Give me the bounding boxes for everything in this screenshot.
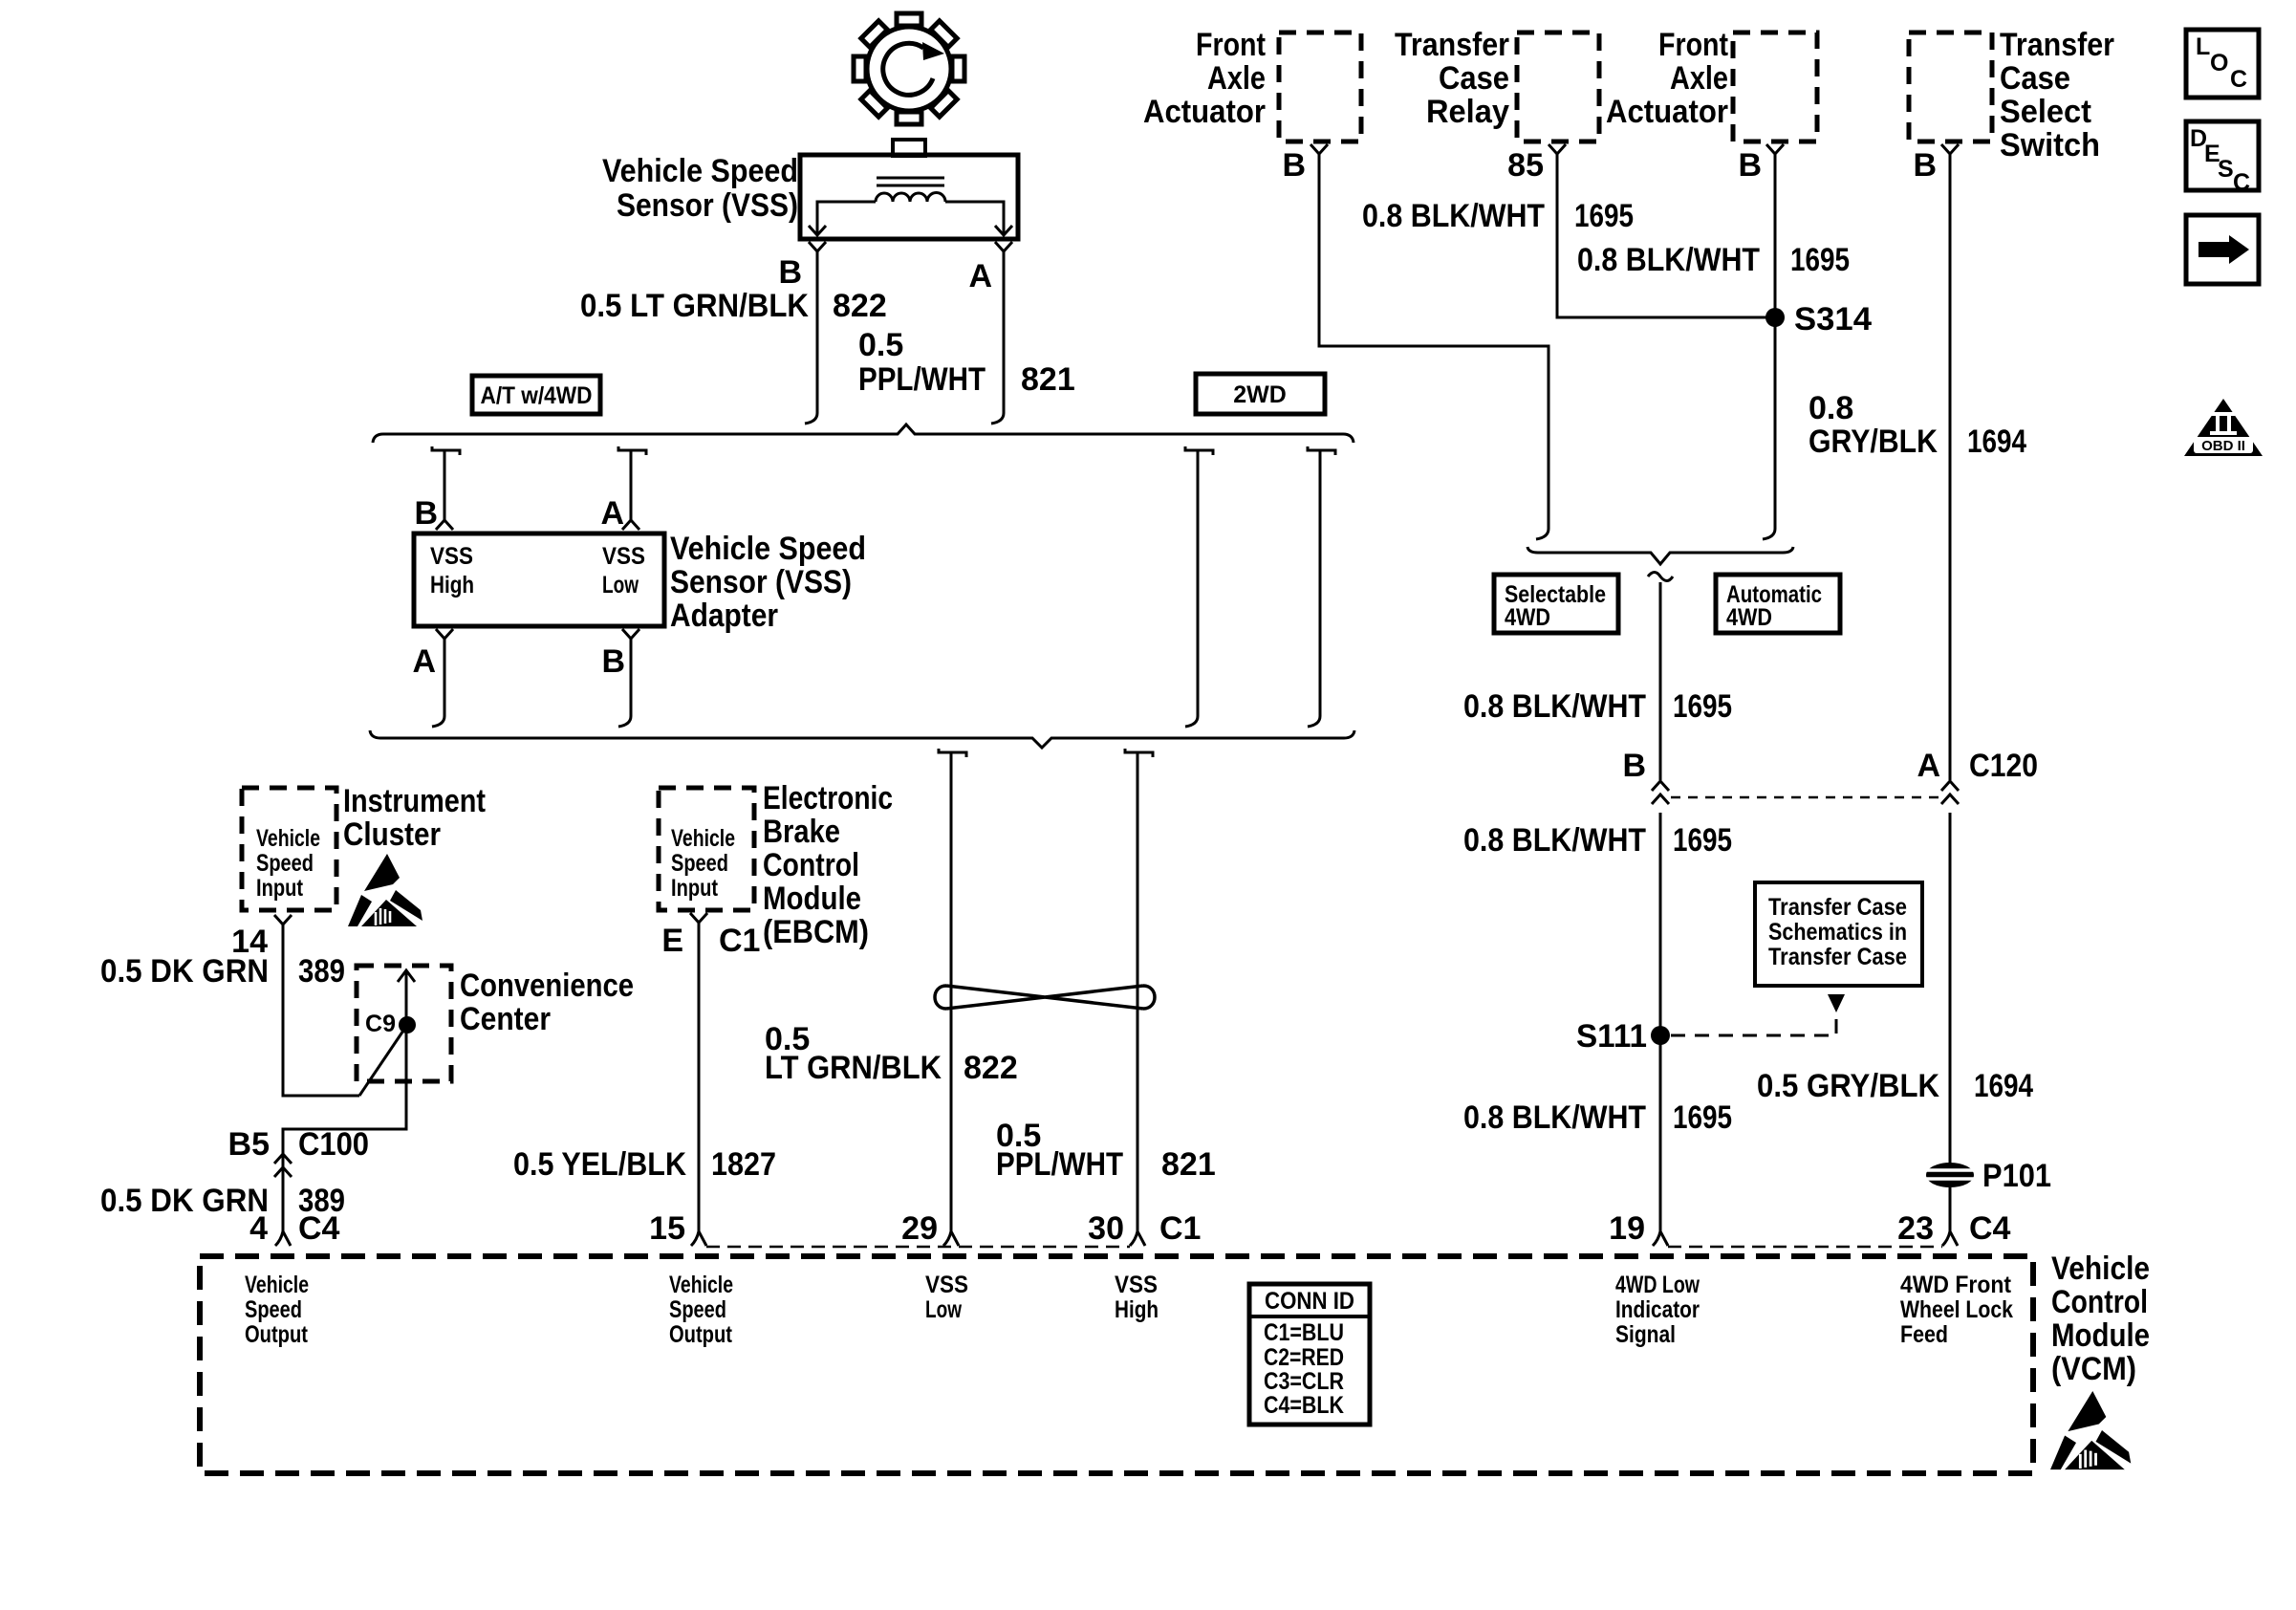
arrowhead down left: [809, 226, 826, 235]
ESD symbol VCM: [2050, 1391, 2131, 1469]
svg-text:C9: C9: [365, 1011, 396, 1037]
pin B connector box1: [1310, 144, 1328, 168]
wire from C120 A down to P101: [1949, 813, 1952, 1164]
svg-text:4: 4: [249, 1210, 268, 1247]
svg-text:Vehicle: Vehicle: [671, 825, 735, 852]
svg-text:Schematics in: Schematics in: [1768, 919, 1907, 946]
svg-text:B: B: [1738, 147, 1762, 184]
svg-text:0.5 YEL/BLK: 0.5 YEL/BLK: [513, 1146, 686, 1183]
svg-text:CONN ID: CONN ID: [1265, 1288, 1354, 1315]
S111 dashed link: [1671, 1015, 1836, 1035]
svg-text:0.8 BLK/WHT: 0.8 BLK/WHT: [1577, 242, 1760, 278]
svg-text:B: B: [1622, 748, 1646, 784]
svg-text:Vehicle: Vehicle: [245, 1272, 309, 1298]
svg-text:Relay: Relay: [1426, 94, 1509, 130]
svg-text:0.8 BLK/WHT: 0.8 BLK/WHT: [1463, 688, 1646, 725]
VSS connector stem: [893, 140, 925, 156]
VSS coil winding: [876, 193, 945, 202]
svg-text:Case: Case: [2000, 60, 2070, 97]
transfer case select switch box: [1909, 33, 1992, 141]
wire 1827 from EBCM to VCM: [691, 933, 706, 1246]
LOC icon box: [2186, 30, 2259, 98]
svg-text:(EBCM): (EBCM): [763, 914, 869, 950]
svg-text:19: 19: [1609, 1210, 1645, 1247]
grommet P101: [1925, 1163, 1975, 1187]
front axle actuator box 1: [1279, 33, 1361, 141]
svg-text:C: C: [2230, 66, 2247, 93]
svg-text:0.5 DK GRN: 0.5 DK GRN: [100, 953, 269, 990]
svg-text:15: 15: [649, 1210, 685, 1247]
svg-text:Sensor (VSS): Sensor (VSS): [670, 564, 852, 600]
svg-text:1695: 1695: [1574, 198, 1634, 234]
svg-text:29: 29: [901, 1210, 938, 1247]
option brace selectable/automatic: [1527, 547, 1793, 564]
svg-text:1827: 1827: [711, 1146, 776, 1183]
svg-text:C2=RED: C2=RED: [1264, 1344, 1344, 1371]
svg-text:GRY/BLK: GRY/BLK: [1809, 424, 1938, 460]
arrow icon box: [2186, 215, 2259, 284]
splice dot S111: [1651, 1026, 1670, 1045]
vehicle control module VCM box: [200, 1256, 2033, 1473]
svg-text:VSS: VSS: [925, 1272, 968, 1298]
svg-text:A/T w/4WD: A/T w/4WD: [481, 382, 593, 409]
svg-text:S111: S111: [1576, 1018, 1647, 1055]
svg-text:1695: 1695: [1673, 822, 1732, 859]
svg-text:PPL/WHT: PPL/WHT: [996, 1146, 1123, 1183]
switch blade diagonal: [359, 1025, 407, 1096]
VSS core bars: [877, 178, 944, 185]
VSS internal loop wire left: [817, 202, 876, 233]
svg-text:B: B: [414, 495, 438, 532]
branch tap right long wire: [1308, 446, 1335, 727]
pin E connector: [690, 913, 707, 933]
svg-text:Electronic: Electronic: [763, 780, 893, 816]
svg-text:(VCM): (VCM): [2051, 1351, 2136, 1387]
CONN ID table: [1249, 1284, 1370, 1425]
reluctor gear icon (VSS tone wheel): [831, 0, 987, 147]
svg-text:Module: Module: [2051, 1317, 2150, 1354]
VSS internal loop wire right: [945, 202, 1004, 233]
svg-text:Control: Control: [763, 847, 859, 883]
option box 2WD: [1196, 374, 1325, 414]
pin A connector of VSS: [995, 242, 1012, 263]
svg-text:821: 821: [1161, 1146, 1216, 1183]
branch tap A to adapter: [618, 446, 646, 530]
svg-text:822: 822: [833, 288, 887, 324]
front axle actuator label 1: [1143, 27, 1266, 130]
svg-text:C4: C4: [298, 1210, 340, 1247]
svg-text:A: A: [1917, 748, 1940, 784]
svg-text:Vehicle Speed: Vehicle Speed: [670, 531, 866, 567]
wire 1695 from brace down to C120 B: [1659, 582, 1662, 780]
option box selectable 4WD: [1494, 575, 1618, 633]
convenience center box: [357, 966, 451, 1081]
branch tap left long wire: [1185, 446, 1213, 727]
svg-text:A: A: [600, 495, 624, 532]
svg-text:Indicator: Indicator: [1615, 1296, 1700, 1323]
svg-text:Module: Module: [763, 881, 861, 917]
svg-text:Adapter: Adapter: [670, 598, 778, 634]
thin dashed pin line 15 to 30: [706, 1246, 1130, 1249]
option box A/T w/4WD: [472, 376, 600, 414]
svg-text:C120: C120: [1969, 748, 2038, 784]
svg-text:P101: P101: [1982, 1158, 2051, 1194]
upper option bus brace: [373, 424, 1354, 443]
wire 389 from cluster down: [283, 933, 359, 1096]
svg-text:1695: 1695: [1673, 688, 1732, 725]
thin dashed pin line 19 to 23: [1668, 1246, 1942, 1249]
svg-text:Signal: Signal: [1615, 1321, 1676, 1348]
svg-text:A: A: [412, 643, 436, 680]
svg-text:Vehicle: Vehicle: [256, 825, 320, 852]
VSS label: [602, 153, 798, 224]
svg-text:Speed: Speed: [245, 1296, 302, 1323]
svg-text:Select: Select: [2000, 94, 2091, 130]
pin B connector box2: [1766, 144, 1784, 168]
svg-text:OBD II: OBD II: [2201, 438, 2245, 454]
wire from select switch B down to C120: [1949, 168, 1952, 780]
vehicle speed sensor VSS box: [800, 155, 1018, 239]
svg-text:E: E: [661, 923, 683, 959]
svg-text:C100: C100: [298, 1126, 369, 1163]
svg-text:Switch: Switch: [2000, 127, 2100, 163]
svg-text:30: 30: [1088, 1210, 1124, 1247]
pin 4 fork at VCM: [275, 1231, 291, 1246]
arrow up inside convenience center: [283, 970, 415, 1231]
front axle actuator label 2: [1606, 27, 1728, 130]
svg-text:Brake: Brake: [763, 814, 840, 850]
svg-text:Actuator: Actuator: [1143, 94, 1266, 130]
wire from relay 85 to S314: [1557, 168, 1775, 317]
pin B connector adapter bottom: [618, 629, 639, 727]
ESD symbol instrument cluster: [348, 854, 422, 926]
svg-text:C3=CLR: C3=CLR: [1264, 1368, 1344, 1395]
svg-text:0.5 GRY/BLK: 0.5 GRY/BLK: [1757, 1068, 1939, 1104]
svg-text:Low: Low: [602, 572, 639, 598]
EBCM box: [659, 788, 754, 910]
svg-text:A: A: [968, 258, 992, 294]
svg-text:Wheel Lock: Wheel Lock: [1900, 1296, 2013, 1323]
svg-text:S314: S314: [1794, 301, 1872, 337]
svg-text:1694: 1694: [1967, 424, 2026, 460]
pin 85 connector relay: [1549, 144, 1566, 168]
transfer case relay label: [1395, 27, 1509, 130]
pin 14 connector: [274, 915, 292, 933]
svg-text:L: L: [2196, 33, 2210, 60]
branch tap wire 822 to VCM: [939, 749, 966, 1246]
svg-text:0.5 DK GRN: 0.5 DK GRN: [100, 1183, 269, 1219]
svg-text:Cluster: Cluster: [343, 816, 441, 853]
svg-text:VSS: VSS: [1115, 1272, 1158, 1298]
svg-text:Low: Low: [925, 1296, 962, 1323]
svg-text:B: B: [601, 643, 625, 680]
svg-text:1695: 1695: [1673, 1099, 1732, 1136]
C120 double chevron A side: [1941, 781, 1959, 804]
twisted pair symbol: [935, 986, 1155, 1009]
pin A connector adapter bottom: [432, 629, 453, 727]
svg-text:High: High: [1115, 1296, 1159, 1323]
svg-text:0.8 BLK/WHT: 0.8 BLK/WHT: [1362, 198, 1545, 234]
svg-text:Axle: Axle: [1670, 60, 1728, 97]
svg-text:Speed: Speed: [671, 850, 728, 877]
arrowhead to transfer case schematics: [1828, 994, 1845, 1012]
svg-text:85: 85: [1507, 147, 1544, 184]
branch tap B to adapter: [432, 446, 460, 530]
svg-text:4WD: 4WD: [1505, 604, 1550, 631]
svg-text:Sensor (VSS): Sensor (VSS): [617, 187, 798, 224]
brace squiggle: [1648, 573, 1673, 581]
arrowhead down right: [995, 226, 1012, 235]
instrument cluster box: [242, 788, 336, 910]
svg-text:4WD: 4WD: [1726, 604, 1772, 631]
svg-text:4WD Low: 4WD Low: [1615, 1272, 1700, 1298]
svg-text:23: 23: [1897, 1210, 1934, 1247]
svg-text:Control: Control: [2051, 1284, 2148, 1320]
svg-text:Center: Center: [460, 1001, 551, 1037]
svg-text:C1: C1: [1159, 1210, 1201, 1247]
C120 double chevron B side: [1652, 781, 1669, 804]
svg-text:B5: B5: [228, 1126, 270, 1163]
svg-text:Front: Front: [1196, 27, 1266, 63]
svg-text:VSS: VSS: [602, 543, 645, 570]
svg-text:2WD: 2WD: [1233, 381, 1287, 408]
svg-text:Transfer: Transfer: [2000, 27, 2114, 63]
pin B connector of VSS: [809, 242, 826, 263]
svg-text:Input: Input: [671, 875, 719, 902]
svg-text:Axle: Axle: [1207, 60, 1266, 97]
wire 1695 from C120 to VCM pin 19: [1653, 813, 1668, 1246]
svg-text:822: 822: [964, 1050, 1018, 1086]
branch tap wire 821 to VCM: [1125, 749, 1153, 1246]
svg-text:B: B: [778, 254, 802, 291]
svg-text:Vehicle: Vehicle: [669, 1272, 733, 1298]
splice dot S314: [1765, 308, 1785, 327]
svg-text:Case: Case: [1439, 60, 1509, 97]
option box automatic 4WD: [1716, 575, 1840, 633]
svg-text:Input: Input: [256, 875, 304, 902]
pin B connector box4: [1941, 144, 1959, 168]
svg-text:Front: Front: [1658, 27, 1728, 63]
svg-text:LT GRN/BLK: LT GRN/BLK: [765, 1050, 942, 1086]
wire from box1 B down and right: [1319, 168, 1549, 539]
C120 dashed connector line: [1671, 796, 1940, 799]
front axle actuator box 2: [1733, 33, 1817, 141]
svg-text:C1=BLU: C1=BLU: [1264, 1319, 1344, 1346]
lower option bus brace: [370, 730, 1354, 748]
svg-text:Instrument: Instrument: [343, 783, 486, 819]
svg-text:Actuator: Actuator: [1606, 94, 1728, 130]
svg-text:Feed: Feed: [1900, 1321, 1948, 1348]
svg-text:389: 389: [298, 953, 345, 990]
svg-text:B: B: [1913, 147, 1937, 184]
svg-text:O: O: [2210, 50, 2228, 76]
svg-text:S: S: [2218, 156, 2234, 183]
svg-text:Speed: Speed: [256, 850, 314, 877]
svg-text:1695: 1695: [1790, 242, 1850, 278]
svg-text:Convenience: Convenience: [460, 968, 634, 1004]
svg-text:PPL/WHT: PPL/WHT: [858, 361, 986, 398]
svg-text:Vehicle Speed: Vehicle Speed: [602, 153, 798, 189]
svg-text:0.8 BLK/WHT: 0.8 BLK/WHT: [1463, 1099, 1646, 1136]
svg-text:Transfer Case: Transfer Case: [1768, 894, 1907, 921]
svg-text:1694: 1694: [1974, 1068, 2033, 1104]
svg-text:C4=BLK: C4=BLK: [1264, 1392, 1344, 1419]
svg-text:Vehicle: Vehicle: [2051, 1251, 2150, 1287]
wire from P101 to VCM pin 23: [1942, 1187, 1958, 1246]
wire 822 from VSS B down to bus: [805, 263, 817, 424]
svg-text:C: C: [2233, 169, 2250, 196]
svg-text:Transfer Case: Transfer Case: [1768, 944, 1907, 970]
OBD II triangle icon: [2184, 399, 2263, 456]
svg-text:0.8 BLK/WHT: 0.8 BLK/WHT: [1463, 822, 1646, 859]
svg-text:Output: Output: [245, 1321, 309, 1348]
svg-text:821: 821: [1021, 361, 1075, 398]
C100 double chevron: [274, 1154, 292, 1177]
svg-text:VSS: VSS: [430, 543, 473, 570]
svg-text:B: B: [1282, 147, 1306, 184]
svg-text:C1: C1: [719, 923, 760, 959]
svg-text:C4: C4: [1969, 1210, 2011, 1247]
svg-text:0.5: 0.5: [858, 327, 903, 363]
svg-text:Speed: Speed: [669, 1296, 726, 1323]
C9 junction dot: [399, 1016, 416, 1033]
vehicle speed sensor adapter box: [414, 533, 664, 626]
transfer case relay box: [1517, 33, 1599, 141]
svg-text:Output: Output: [669, 1321, 733, 1348]
svg-text:High: High: [430, 572, 474, 598]
transfer case schematics box: [1755, 882, 1922, 986]
DESC icon box: [2186, 121, 2259, 196]
svg-text:Transfer: Transfer: [1395, 27, 1509, 63]
svg-text:4WD Front: 4WD Front: [1900, 1272, 2012, 1298]
svg-text:0.5 LT GRN/BLK: 0.5 LT GRN/BLK: [580, 288, 809, 324]
wire from box2 B down through S314: [1763, 168, 1775, 539]
svg-text:0.8: 0.8: [1809, 390, 1853, 426]
wire 821 from VSS A down to bus: [991, 263, 1004, 424]
